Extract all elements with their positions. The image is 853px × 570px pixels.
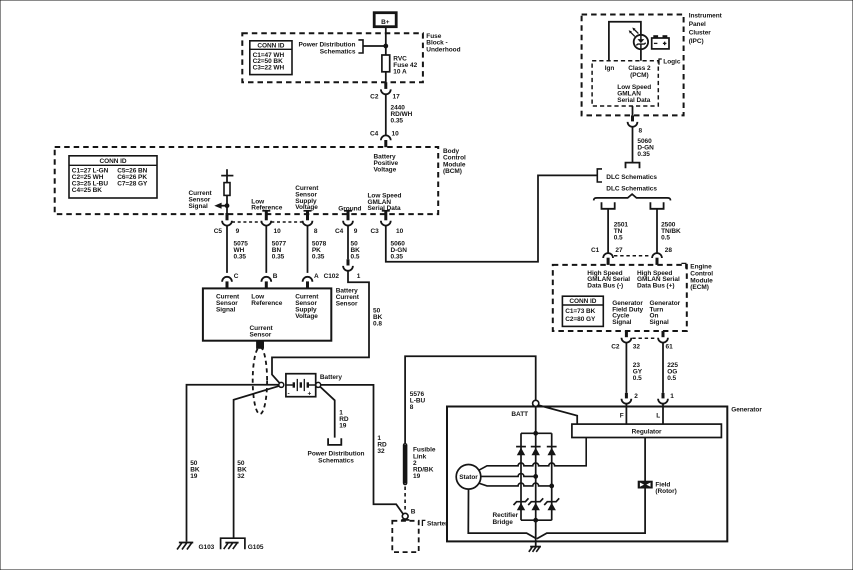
rectifier leg 2 — [535, 433, 537, 520]
svg-text:0.35: 0.35 — [272, 253, 285, 260]
IPC logic box (dashed) — [592, 61, 658, 106]
svg-text:1: 1 — [357, 273, 361, 280]
current sensor box — [203, 288, 331, 340]
svg-text:Instrument: Instrument — [689, 12, 723, 19]
wire BATT to regulator — [538, 405, 577, 424]
svg-text:+: + — [308, 391, 312, 398]
BCM pin C5-9 (current sensor signal) — [214, 213, 240, 235]
svg-text:C2: C2 — [611, 344, 620, 351]
wire 5077 BN 0.35 — [265, 226, 267, 273]
label Fusible Link 2 RD/BK 19 — [413, 447, 436, 480]
label Current Sensor Supply Voltage (BCM) — [295, 185, 319, 211]
fusible link 2 RD/BK 19 — [404, 444, 406, 485]
svg-text:0.35: 0.35 — [391, 118, 404, 125]
label F terminal — [620, 412, 624, 419]
label Low Reference (sensor) — [251, 294, 282, 308]
svg-text:0.35: 0.35 — [234, 253, 247, 260]
diode top leg1 — [516, 447, 526, 456]
junction dot resistor/arrow — [225, 204, 229, 208]
wire Ign to indicator — [609, 22, 641, 61]
rectifier leg 1 — [520, 433, 522, 520]
svg-text:8: 8 — [314, 228, 318, 235]
svg-text:Regulator: Regulator — [632, 428, 662, 435]
label Body Control Module (BCM) — [443, 148, 466, 175]
label 1 RD 19 — [339, 409, 349, 429]
svg-text:0.5: 0.5 — [351, 253, 360, 260]
svg-text:0.35: 0.35 — [637, 151, 650, 158]
svg-text:BATT: BATT — [511, 411, 528, 418]
connector pin 61 (ECM bottom) — [658, 331, 673, 351]
rectifier top rail — [521, 432, 552, 434]
svg-text:Data Bus (-): Data Bus (-) — [587, 283, 623, 290]
svg-text:Cluster: Cluster — [689, 29, 712, 36]
svg-text:(PCM): (PCM) — [630, 72, 649, 79]
label Power Distribution Schematics (fuse block) — [299, 41, 356, 55]
fuse block CONN ID table — [250, 41, 292, 75]
wire 5075 WH 0.35 — [226, 226, 228, 273]
connector C2 pin 32 (ECM bottom) — [611, 331, 640, 351]
battery terminal negative (left circle) — [279, 382, 284, 387]
label 225 OG 0.5 — [667, 362, 678, 382]
label Battery Positive Voltage (BCM) — [374, 154, 399, 174]
stator phase line 1 to regulator — [479, 438, 587, 471]
wire 23 GY 0.5 — [625, 343, 627, 393]
svg-text:32: 32 — [237, 473, 245, 480]
label Generator — [731, 407, 762, 414]
wire 5060 D-GN 0.35 (IPC to DLC) — [632, 127, 634, 163]
current sensor clamp loop (dashed ellipse) — [253, 347, 267, 414]
BCM CONN ID table — [69, 156, 157, 198]
starter box (dashed) — [392, 521, 418, 552]
label 2440 RD/WH 0.35 — [391, 105, 413, 125]
wire 5060 D-GN 0.35 (BCM to DLC) — [386, 175, 597, 261]
wire 225 OG 0.5 — [662, 343, 664, 393]
label Battery Current Sensor — [336, 288, 360, 308]
battery telltale icon — [652, 36, 669, 49]
svg-text:10: 10 — [396, 228, 404, 235]
label Current Sensor Signal (sensor) — [216, 294, 240, 314]
schematic half-box DLC bus minus — [602, 202, 615, 209]
svg-text:C1=73 BK: C1=73 BK — [565, 308, 595, 315]
label Battery — [320, 374, 342, 381]
ECM CONN ID table — [562, 296, 603, 326]
svg-text:Stator: Stator — [459, 474, 478, 481]
svg-text:0.5: 0.5 — [661, 234, 670, 241]
label Generator Field Duty Cycle Signal — [612, 300, 643, 326]
svg-text:32: 32 — [377, 448, 385, 455]
svg-text:(ECM): (ECM) — [690, 284, 709, 291]
svg-text:B+: B+ — [381, 19, 390, 26]
instrument panel cluster box (dashed) — [582, 15, 684, 116]
svg-text:C102: C102 — [324, 273, 340, 280]
label 1 RD 32 — [377, 435, 387, 455]
label Generator Turn On Signal — [650, 300, 681, 326]
connector pin 8 (IPC bottom) — [628, 115, 643, 134]
BCM pin C4-9 (ground) — [335, 211, 358, 235]
wire battery negative to G103 drop — [187, 385, 279, 542]
engine control module box (dashed) — [553, 265, 687, 331]
svg-text:L: L — [656, 412, 660, 419]
battery polarity marks — [288, 390, 312, 397]
current sensor signal arrow (BCM) — [214, 203, 227, 209]
stator ground wire — [468, 489, 536, 539]
battery box — [286, 374, 316, 397]
label Power Distribution Schematics (battery) — [308, 451, 365, 465]
svg-text:DLC Schematics: DLC Schematics — [606, 185, 657, 192]
label 2501 TN 0.5 — [614, 221, 629, 241]
label Ign — [605, 65, 615, 72]
ground G103 — [177, 543, 215, 552]
wire B+ to fuse block — [385, 27, 387, 46]
dashed connector grouping line C2 — [632, 337, 657, 339]
wire battery negative to G105 drop — [234, 386, 280, 538]
svg-text:10: 10 — [392, 131, 400, 138]
svg-text:Starter: Starter — [427, 520, 448, 527]
label High Speed GMLAN Serial Data Bus (-) — [587, 270, 630, 290]
wire 2501 TN 0.5 — [607, 209, 609, 253]
svg-text:0.8: 0.8 — [373, 321, 382, 328]
svg-text:(Rotor): (Rotor) — [655, 488, 676, 495]
wire 2500 TN/BK 0.5 — [656, 209, 658, 253]
rectifier leg 3 — [551, 433, 553, 520]
charge indicator LED — [634, 35, 648, 49]
label Field (Rotor) — [655, 481, 676, 495]
svg-text:CONN ID: CONN ID — [99, 158, 126, 165]
svg-text:Generator: Generator — [731, 407, 762, 414]
svg-text:C3=22 WH: C3=22 WH — [253, 65, 285, 72]
svg-text:A: A — [314, 273, 319, 280]
label C102 — [324, 273, 340, 280]
svg-text:Signal: Signal — [216, 307, 235, 314]
BCM internal resistor with supply bar — [221, 169, 233, 220]
wire 50 BK 0.5 — [347, 226, 349, 260]
svg-text:Schematics: Schematics — [318, 458, 354, 465]
svg-text:C4: C4 — [335, 228, 344, 235]
label Current Sensor Supply Voltage (sensor) — [295, 294, 319, 321]
diode bottom leg2 — [528, 498, 543, 510]
wire to L terminal — [662, 404, 664, 424]
svg-text:19: 19 — [413, 473, 421, 480]
svg-text:32: 32 — [633, 344, 641, 351]
label 5060 D-GN 0.35 (IPC side) — [637, 138, 654, 158]
wire 1 RD 32 battery to starter — [321, 385, 404, 514]
label 5077 BN 0.35 — [272, 240, 287, 260]
svg-text:CONN ID: CONN ID — [257, 42, 284, 49]
wire to F terminal — [625, 404, 627, 424]
svg-text:Underhood: Underhood — [426, 46, 460, 53]
svg-text:0.5: 0.5 — [667, 375, 676, 382]
label 50 BK 32 — [237, 460, 247, 480]
svg-text:B: B — [273, 273, 278, 280]
wire 1 RD 19 to power distribution — [320, 387, 335, 438]
svg-text:Voltage: Voltage — [374, 167, 397, 174]
svg-text:Schematics: Schematics — [320, 48, 356, 55]
svg-text:Ign: Ign — [605, 65, 615, 72]
label Fuse Block - Underhood — [426, 33, 460, 54]
label 50 BK 0.5 — [351, 240, 361, 260]
svg-text:0.5: 0.5 — [614, 234, 623, 241]
wire LED to logic (Class 2) — [640, 49, 642, 61]
svg-text:Signal: Signal — [650, 319, 669, 326]
label 5060 D-GN 0.35 (BCM side) — [391, 240, 408, 260]
svg-text:(BCM): (BCM) — [443, 168, 462, 175]
label 23 GY 0.5 — [633, 362, 643, 382]
wire bracket to B+ feed — [363, 45, 386, 47]
svg-text:0.35: 0.35 — [391, 253, 404, 260]
fuse RVC Fuse 42 10A — [382, 46, 390, 82]
label 5078 PK 0.35 — [312, 240, 327, 260]
svg-text:Signal: Signal — [189, 203, 208, 210]
connector C102 pin C — [222, 273, 239, 288]
label 50 BK 0.8 — [373, 307, 383, 327]
generator box — [447, 407, 727, 542]
label 5576 L-BU 8 — [410, 391, 426, 411]
body control module box (dashed) — [55, 147, 439, 214]
svg-text:-: - — [288, 390, 290, 397]
svg-text:Sensor: Sensor — [336, 301, 358, 308]
dashed connector grouping line C5 — [232, 221, 303, 223]
svg-text:Power Distribution: Power Distribution — [299, 41, 356, 48]
current sensor pickup stub (filled square) — [257, 341, 264, 349]
battery positive terminal B+ — [374, 13, 396, 27]
diode top leg2 — [531, 447, 541, 456]
label Ground (BCM) — [338, 206, 361, 213]
label 2500 TN/BK 0.5 — [661, 221, 681, 241]
battery terminal positive (right circle) — [316, 382, 321, 387]
svg-text:C5: C5 — [214, 228, 223, 235]
starter B terminal — [401, 509, 415, 520]
svg-text:9: 9 — [236, 228, 240, 235]
svg-text:19: 19 — [339, 422, 347, 429]
svg-text:C1: C1 — [591, 247, 600, 254]
dashed lead fusible link to starter B — [404, 487, 406, 513]
svg-text:Sensor: Sensor — [250, 332, 272, 339]
svg-text:C4: C4 — [370, 131, 379, 138]
label 50 BK 19 — [190, 460, 200, 480]
svg-text:61: 61 — [666, 344, 674, 351]
junction dot BATT rail — [534, 431, 538, 435]
stator phase line 2 — [481, 473, 538, 478]
connector C2 pin 17 (fuse block underhood) — [370, 82, 400, 100]
schematic half-box DLC bus plus — [650, 202, 663, 209]
svg-text:19: 19 — [190, 473, 198, 480]
svg-text:Data Bus (+): Data Bus (+) — [637, 283, 675, 290]
svg-text:10 A: 10 A — [393, 68, 407, 75]
field ground wire — [537, 488, 645, 539]
rectifier bottom rail — [521, 519, 552, 521]
inline connector pin 1 (generator L) — [658, 393, 674, 404]
field (rotor) winding — [638, 481, 652, 488]
wire 2440 RD/WH 0.35 — [385, 94, 387, 135]
svg-text:C2=80 GY: C2=80 GY — [565, 316, 596, 323]
connector C1 pin 27 (ECM top) — [591, 247, 623, 265]
schematic half-box power distribution — [328, 438, 341, 445]
svg-text:C4=25 BK: C4=25 BK — [72, 187, 102, 194]
svg-text:G105: G105 — [248, 544, 264, 551]
schematic reference bracket ] — [358, 40, 363, 53]
label Rectifier Bridge — [493, 512, 519, 526]
svg-text:Signal: Signal — [612, 319, 631, 326]
svg-text:(IPC): (IPC) — [689, 38, 704, 45]
connector pin 1 (battery current sensor) — [343, 259, 361, 280]
wire logic to IPC pin — [632, 106, 634, 115]
junction dot at B+ feed — [384, 44, 388, 48]
wire 50 BK 0.8 — [272, 271, 369, 383]
svg-text:C: C — [234, 273, 239, 280]
svg-text:CONN ID: CONN ID — [569, 298, 596, 305]
label Engine Control Module (ECM) — [681, 263, 713, 291]
svg-text:Reference: Reference — [251, 300, 282, 307]
connector C102 pin B — [261, 273, 277, 288]
svg-text:Panel: Panel — [689, 21, 706, 28]
svg-text:G103: G103 — [199, 544, 215, 551]
label Low Speed GMLAN Serial Data (BCM) — [368, 192, 402, 212]
connector C4 pin 10 (BCM top) — [370, 131, 399, 148]
label Current Sensor — [250, 325, 274, 339]
wire BATT to rectifier rail — [535, 407, 537, 434]
label Logic — [659, 59, 681, 66]
label DLC Schematics (upper) — [606, 174, 657, 181]
inline connector pin 2 (generator F) — [622, 393, 639, 404]
label 5075 WH 0.35 — [234, 240, 249, 260]
BCM pin 10 (low reference) — [261, 211, 281, 235]
DLC brace — [594, 194, 671, 200]
junction dot rectifier bottom — [534, 518, 538, 522]
label Regulator — [632, 428, 662, 435]
svg-text:1: 1 — [670, 393, 674, 400]
wire 5576 L-BU 8 generator BATT to fusible link — [405, 356, 536, 443]
svg-text:2: 2 — [634, 393, 638, 400]
BCM pin C3-10 (serial data) — [370, 211, 403, 235]
LED arrows — [629, 28, 639, 37]
label Low Reference (BCM) — [251, 198, 282, 211]
schematic half-box DLC (from IPC) — [626, 163, 640, 169]
svg-text:10: 10 — [274, 228, 282, 235]
regulator box — [572, 424, 722, 437]
diode top leg3 — [547, 447, 557, 456]
svg-text:Logic: Logic — [663, 59, 681, 66]
svg-text:28: 28 — [665, 247, 673, 254]
svg-text:Battery: Battery — [320, 374, 342, 381]
label BATT — [511, 411, 528, 418]
label L terminal — [656, 412, 660, 419]
label Instrument Panel Cluster (IPC) — [689, 12, 723, 45]
schematic reference bracket [ (DLC) — [597, 169, 602, 182]
svg-text:8: 8 — [410, 404, 414, 411]
dashed connector grouping line C1 — [614, 255, 651, 257]
svg-text:Power Distribution: Power Distribution — [308, 451, 365, 458]
label Low Speed GMLAN Serial Data (IPC) — [617, 84, 651, 104]
label Starter — [422, 520, 448, 527]
label Class 2 (PCM) — [628, 65, 651, 79]
connector pin 28 (ECM top) — [652, 247, 672, 265]
fuse block - underhood box (dashed) — [242, 33, 423, 82]
label High Speed GMLAN Serial Data Bus (+) — [637, 270, 680, 290]
label Current Sensor Signal (BCM) — [189, 190, 213, 210]
label RVC Fuse 42 10 A — [393, 55, 417, 75]
generator internal ground — [529, 547, 541, 552]
svg-text:C2: C2 — [370, 93, 379, 100]
ground G105 — [221, 538, 264, 551]
BATT terminal circle — [533, 400, 539, 406]
svg-text:9: 9 — [354, 228, 358, 235]
svg-text:Voltage: Voltage — [295, 313, 318, 320]
svg-text:Bridge: Bridge — [493, 519, 514, 526]
rectifier to ground vertex — [535, 520, 537, 546]
connector C102 pin A — [303, 273, 319, 288]
svg-text:C3: C3 — [370, 228, 379, 235]
svg-text:27: 27 — [615, 247, 623, 254]
svg-text:0.35: 0.35 — [312, 253, 325, 260]
wire 5078 PK 0.35 — [307, 226, 309, 273]
diode bottom leg3 — [544, 498, 559, 510]
svg-text:B: B — [411, 509, 416, 516]
svg-text:17: 17 — [393, 93, 401, 100]
svg-text:Serial Data: Serial Data — [617, 97, 650, 104]
wire regulator to field — [644, 438, 646, 482]
BCM pin 8 (current sensor supply) — [303, 211, 318, 235]
svg-text:0.5: 0.5 — [633, 375, 642, 382]
stator winding circle — [456, 465, 481, 490]
svg-text:C7=28 GY: C7=28 GY — [117, 181, 148, 188]
svg-text:8: 8 — [639, 128, 643, 135]
stator phase line 3 — [479, 483, 554, 488]
svg-text:F: F — [620, 412, 624, 419]
label DLC Schematics (lower) — [606, 185, 657, 192]
diode bottom leg1 — [514, 498, 529, 510]
svg-text:DLC Schematics: DLC Schematics — [606, 174, 657, 181]
